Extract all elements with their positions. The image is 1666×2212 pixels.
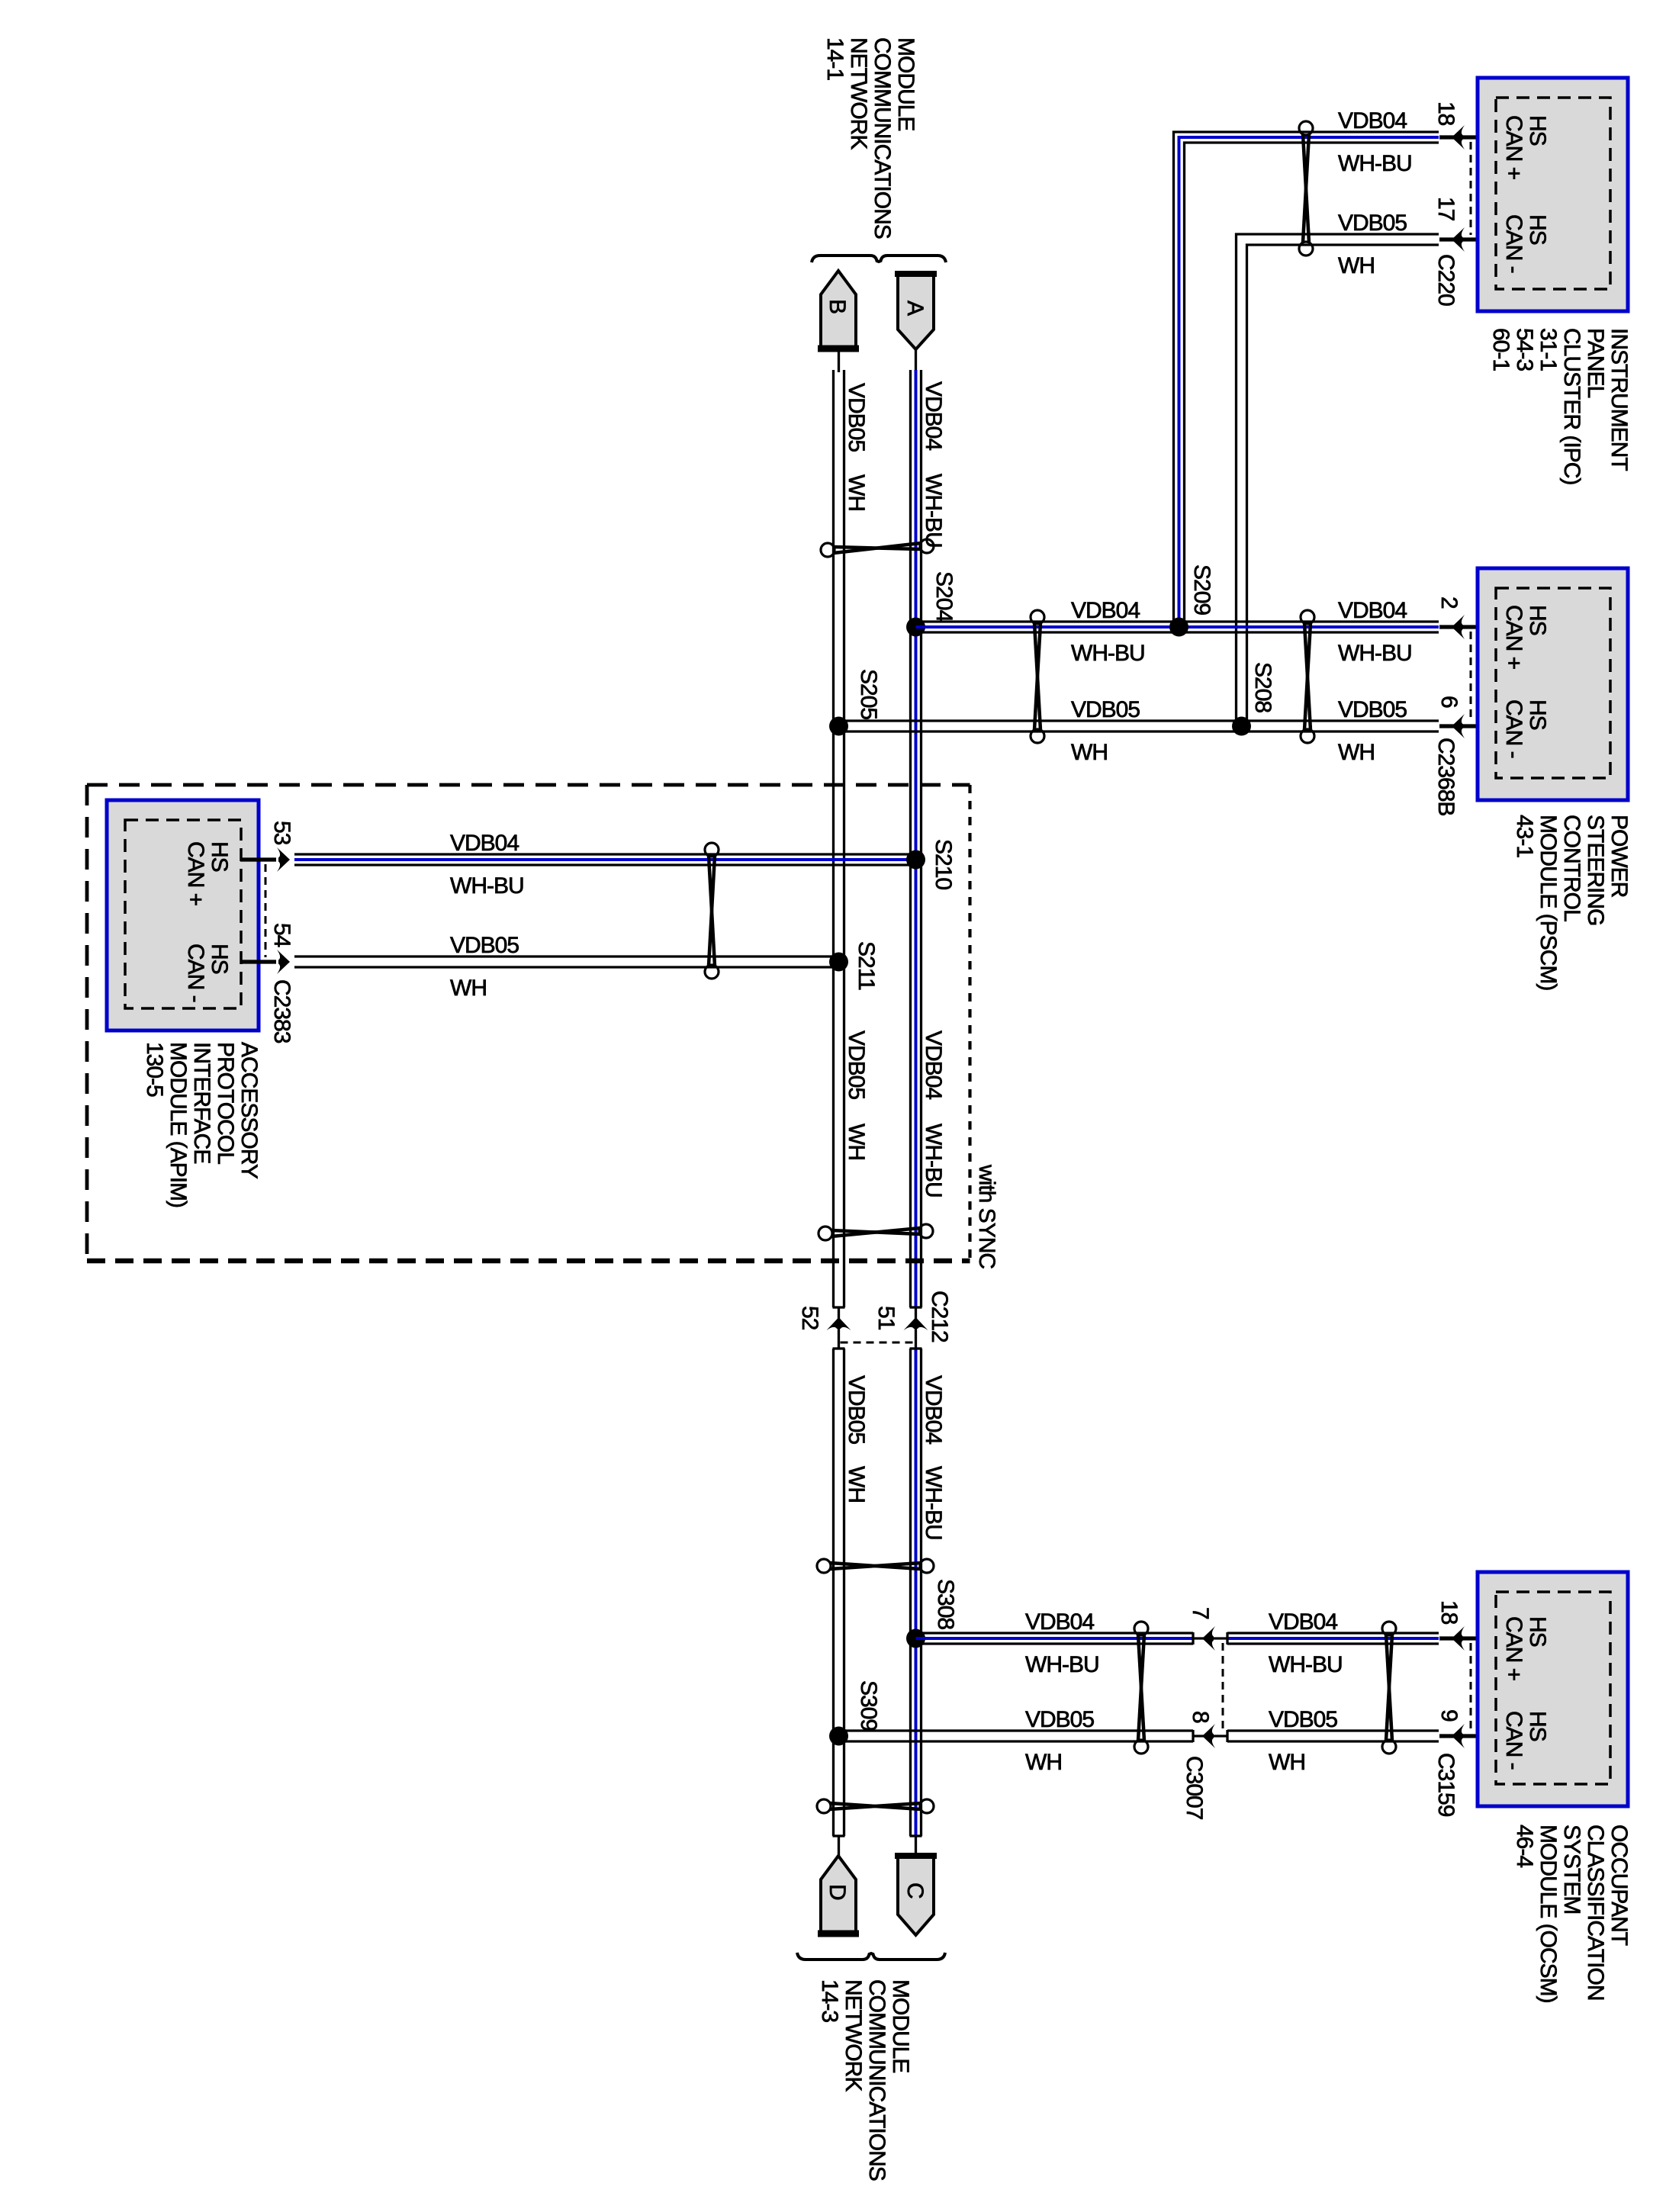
- svg-text:C2368B: C2368B: [1433, 738, 1459, 815]
- svg-text:WH: WH: [844, 1124, 869, 1160]
- bus wire VDB04 WH-BU (C212 to C): [910, 1349, 922, 1836]
- option box: with SYNC: [87, 785, 970, 1261]
- wire label VDB05 WH (IPC): [1338, 211, 1407, 278]
- module box APIM (Accessory Protocol Interface Module): [107, 800, 259, 1030]
- arrow into IPC pin 17: [1452, 227, 1465, 252]
- C212 pin 51 lead: [915, 1307, 917, 1349]
- svg-text:B: B: [825, 299, 850, 313]
- wire label VDB05 WH (PSCM): [1338, 697, 1407, 765]
- OCSM pin 18 stub: [1439, 1636, 1496, 1640]
- wire stub above D: [838, 1836, 840, 1857]
- svg-text:WH-BU: WH-BU: [921, 1124, 946, 1198]
- wire label VDB04 WH-BU (mid segment): [1071, 598, 1145, 666]
- svg-text:WH: WH: [1338, 740, 1375, 765]
- svg-text:WH: WH: [1338, 253, 1375, 278]
- label S209: [1189, 564, 1214, 615]
- module box OCSM (Occupant Classification System Module): [1478, 1572, 1628, 1806]
- svg-text:HS: HS: [207, 841, 232, 872]
- svg-text:VDB05: VDB05: [1338, 211, 1407, 236]
- svg-text:VDB05: VDB05: [450, 933, 519, 958]
- svg-text:WH-BU: WH-BU: [1338, 151, 1412, 176]
- wire VDB04 WH-BU (APIM pin 53 to S210): [294, 854, 916, 865]
- arrow into OCSM pin 9: [1452, 1724, 1465, 1748]
- arrow into C212 pin 52: [827, 1317, 851, 1330]
- twisted pair symbol (bus, below C212): [817, 1559, 934, 1573]
- module name POWER STEERING CONTROL MODULE (PSCM): [1512, 815, 1632, 990]
- svg-text:CAN +: CAN +: [1501, 115, 1526, 180]
- svg-text:WH: WH: [1071, 740, 1108, 765]
- svg-text:C220: C220: [1433, 254, 1459, 306]
- svg-text:WH-BU: WH-BU: [1338, 641, 1412, 666]
- module name OCCUPANT CLASSIFICATION SYSTEM MODULE (OCSM): [1512, 1825, 1632, 2003]
- connector label C2368B: [1433, 738, 1459, 815]
- svg-text:130-5: 130-5: [142, 1042, 167, 1097]
- svg-text:6: 6: [1436, 696, 1462, 708]
- svg-text:HS: HS: [1525, 699, 1550, 730]
- arrow into C3007 pin 7: [1202, 1626, 1215, 1651]
- svg-text:S205: S205: [856, 669, 881, 719]
- APIM pin name HS CAN -: [183, 944, 232, 1002]
- svg-text:PANEL: PANEL: [1583, 328, 1608, 397]
- svg-text:VDB05: VDB05: [1269, 1707, 1337, 1732]
- bus label VDB04 WH-BU (lower): [921, 1375, 946, 1540]
- IPC pin 18 stub: [1439, 135, 1496, 139]
- svg-text:CAN -: CAN -: [1501, 699, 1526, 758]
- svg-text:S209: S209: [1189, 564, 1214, 615]
- wire VDB04 WH-BU (IPC pin 18 branch): [1174, 132, 1439, 627]
- C3007 pin 8 lead: [1192, 1735, 1228, 1737]
- module box IPC (Instrument Panel Cluster): [1478, 78, 1628, 311]
- svg-text:VDB04: VDB04: [1269, 1609, 1337, 1635]
- OCSM pin name HS CAN +: [1501, 1616, 1550, 1681]
- wire label VDB04 WH-BU (IPC): [1338, 108, 1412, 176]
- twisted pair symbol (S308/S309 segment): [1134, 1622, 1148, 1754]
- svg-text:C2383: C2383: [269, 979, 294, 1043]
- label S211: [854, 941, 879, 990]
- pin 51 label: [873, 1306, 899, 1330]
- svg-text:VDB04: VDB04: [921, 381, 946, 450]
- svg-text:C212: C212: [927, 1291, 952, 1342]
- wire label VDB05 WH (S309 segment): [1025, 1707, 1094, 1775]
- wire VDB05 WH (S309 to C3007): [839, 1730, 1194, 1742]
- svg-text:S204: S204: [931, 571, 957, 622]
- wire VDB05 WH (APIM pin 54 to S211): [294, 956, 839, 967]
- arrow out of APIM pin 54: [277, 950, 290, 974]
- svg-text:S211: S211: [854, 941, 879, 990]
- svg-text:OCCUPANT: OCCUPANT: [1606, 1825, 1632, 1946]
- svg-text:54-3: 54-3: [1512, 328, 1537, 371]
- APIM connector dashed line C2383: [265, 864, 267, 957]
- svg-text:ACCESSORY: ACCESSORY: [236, 1042, 262, 1179]
- svg-text:STEERING: STEERING: [1583, 815, 1608, 925]
- label S208: [1250, 662, 1275, 712]
- twisted pair symbol (OCSM): [1382, 1622, 1396, 1754]
- module box PSCM (Power Steering Control Module): [1478, 568, 1628, 800]
- APIM pin name HS CAN +: [183, 841, 232, 906]
- splice S211: [829, 953, 848, 972]
- wire VDB05 WH (S205 to PSCM pin 6): [839, 721, 1439, 731]
- splice S204: [906, 618, 925, 637]
- svg-text:COMMUNICATIONS: COMMUNICATIONS: [870, 37, 895, 239]
- splice S209: [1169, 618, 1188, 637]
- svg-text:9: 9: [1436, 1709, 1462, 1722]
- pin 53 label: [269, 821, 294, 845]
- svg-text:VDB05: VDB05: [1071, 697, 1140, 722]
- net name MODULE COMMUNICATIONS NETWORK 14-3: [817, 1979, 913, 2181]
- pin 52 label: [797, 1306, 822, 1330]
- svg-text:C3007: C3007: [1182, 1756, 1207, 1820]
- OCSM pin 9 stub: [1439, 1734, 1496, 1738]
- svg-text:S309: S309: [856, 1680, 881, 1731]
- connector label C2383: [269, 979, 294, 1043]
- svg-text:MODULE (APIM): MODULE (APIM): [166, 1042, 191, 1207]
- svg-text:VDB05: VDB05: [1025, 1707, 1094, 1732]
- C212 connector dashed line: [841, 1342, 915, 1344]
- svg-text:52: 52: [797, 1306, 822, 1330]
- svg-text:WH-BU: WH-BU: [921, 474, 946, 548]
- brace bottom: [797, 1953, 945, 1960]
- pin 2 label: [1436, 596, 1462, 609]
- connector label C220: [1433, 254, 1459, 306]
- OCSM connector dashed line C3159: [1470, 1643, 1472, 1731]
- svg-text:HS: HS: [1525, 1616, 1550, 1647]
- module name INSTRUMENT PANEL CLUSTER (IPC): [1488, 328, 1632, 484]
- PSCM connector dashed line C2368B: [1470, 632, 1472, 722]
- svg-text:VDB04: VDB04: [921, 1030, 946, 1099]
- splice S309: [829, 1727, 848, 1746]
- svg-text:HS: HS: [1525, 1711, 1550, 1741]
- net name MODULE COMMUNICATIONS NETWORK 14-1: [822, 37, 918, 239]
- svg-text:MODULE (PSCM): MODULE (PSCM): [1536, 815, 1561, 990]
- pin 54 label: [269, 923, 294, 947]
- svg-text:CAN -: CAN -: [1501, 1711, 1526, 1770]
- PSCM pin 6 stub: [1439, 724, 1496, 728]
- svg-text:SYSTEM: SYSTEM: [1559, 1825, 1584, 1914]
- twisted pair symbol (bus, upper): [821, 539, 934, 557]
- label S205: [856, 669, 881, 719]
- svg-text:WH-BU: WH-BU: [1071, 641, 1145, 666]
- bus label VDB04 WH-BU (top): [921, 381, 946, 548]
- svg-text:43-1: 43-1: [1512, 815, 1537, 857]
- svg-text:VDB04: VDB04: [921, 1375, 946, 1444]
- svg-text:VDB04: VDB04: [450, 831, 519, 856]
- svg-text:18: 18: [1433, 101, 1459, 126]
- IPC pin 17 stub: [1439, 237, 1496, 241]
- wire label VDB04 WH-BU (APIM): [450, 831, 524, 899]
- svg-text:WH-BU: WH-BU: [1269, 1652, 1343, 1677]
- svg-text:INTERFACE: INTERFACE: [189, 1042, 214, 1163]
- label S308: [933, 1579, 958, 1629]
- arrow into PSCM pin 6: [1452, 714, 1465, 738]
- svg-text:46-4: 46-4: [1512, 1825, 1537, 1867]
- off-page connector D: [818, 1856, 859, 1935]
- bus label VDB05 WH (middle): [844, 1030, 869, 1160]
- off-page connector A: [895, 273, 937, 349]
- svg-text:NETWORK: NETWORK: [841, 1979, 866, 2091]
- svg-text:VDB05: VDB05: [844, 383, 869, 452]
- wire VDB04 WH-BU (S204 to PSCM pin 2): [916, 622, 1439, 632]
- twisted pair symbol (bus, in SYNC box): [819, 1224, 933, 1240]
- svg-text:WH: WH: [1025, 1750, 1062, 1775]
- pin 6 label: [1436, 696, 1462, 708]
- label S309: [856, 1680, 881, 1731]
- svg-text:CAN -: CAN -: [1501, 214, 1526, 273]
- svg-text:S208: S208: [1250, 662, 1275, 712]
- IPC pin name HS CAN -: [1501, 214, 1550, 273]
- bus wire VDB05 WH (C212 to D): [833, 1349, 845, 1836]
- svg-text:VDB04: VDB04: [1338, 598, 1407, 623]
- svg-text:CONTROL: CONTROL: [1559, 815, 1584, 921]
- APIM pin 53 stub: [240, 857, 276, 861]
- bus label VDB05 WH (top): [844, 383, 869, 511]
- svg-text:CAN +: CAN +: [1501, 605, 1526, 670]
- svg-text:18: 18: [1436, 1600, 1462, 1625]
- arrow out of APIM pin 53: [277, 847, 290, 872]
- svg-text:INSTRUMENT: INSTRUMENT: [1606, 328, 1632, 471]
- svg-text:WH: WH: [844, 1466, 869, 1503]
- svg-text:MODULE: MODULE: [893, 37, 918, 130]
- pin 8 label: [1188, 1711, 1213, 1723]
- bus label VDB05 WH (lower): [844, 1375, 869, 1503]
- svg-text:S210: S210: [931, 839, 956, 889]
- bus label VDB04 WH-BU (middle): [921, 1030, 946, 1198]
- svg-text:VDB05: VDB05: [844, 1375, 869, 1444]
- wire VDB04 WH-BU (S308 to C3007): [916, 1632, 1194, 1645]
- svg-text:7: 7: [1188, 1607, 1213, 1619]
- svg-text:WH: WH: [844, 474, 869, 511]
- svg-text:HS: HS: [1525, 214, 1550, 245]
- pin 7 label: [1188, 1607, 1213, 1619]
- svg-text:S308: S308: [933, 1579, 958, 1629]
- svg-text:CLASSIFICATION: CLASSIFICATION: [1583, 1825, 1608, 2000]
- svg-text:53: 53: [269, 821, 294, 845]
- module name ACCESSORY PROTOCOL INTERFACE MODULE (APIM): [142, 1042, 262, 1207]
- svg-text:A: A: [902, 301, 928, 316]
- label S210: [931, 839, 956, 889]
- APIM pin 54 stub: [240, 960, 276, 963]
- svg-text:2: 2: [1436, 596, 1462, 609]
- svg-text:POWER: POWER: [1606, 815, 1632, 898]
- label S204: [931, 571, 957, 622]
- off-page connector C: [895, 1855, 937, 1935]
- svg-text:PROTOCOL: PROTOCOL: [213, 1042, 238, 1164]
- twisted pair symbol (PSCM): [1301, 610, 1314, 743]
- wire stub below A: [915, 349, 917, 372]
- svg-text:HS: HS: [207, 944, 232, 974]
- arrow into C212 pin 51: [904, 1317, 928, 1330]
- svg-text:60-1: 60-1: [1488, 328, 1513, 371]
- pin 9 label (OCSM): [1436, 1709, 1462, 1722]
- svg-text:MODULE: MODULE: [888, 1979, 913, 2072]
- brace top: [812, 256, 946, 262]
- wire label VDB05 WH (OCSM): [1269, 1707, 1337, 1775]
- arrow into C3007 pin 8: [1202, 1724, 1215, 1748]
- wire VDB05 WH (C3007 to OCSM pin 9): [1227, 1730, 1439, 1742]
- svg-text:14-1: 14-1: [822, 37, 847, 80]
- PSCM pin name HS CAN -: [1501, 699, 1550, 758]
- pin 18 label: [1433, 101, 1459, 126]
- svg-text:VDB04: VDB04: [1338, 108, 1407, 133]
- svg-text:17: 17: [1433, 197, 1459, 221]
- svg-text:with SYNC: with SYNC: [974, 1164, 999, 1268]
- off-page connector B: [818, 271, 859, 350]
- twisted pair symbol (APIM): [705, 843, 719, 979]
- svg-text:WH-BU: WH-BU: [921, 1466, 946, 1540]
- svg-text:NETWORK: NETWORK: [846, 37, 871, 150]
- splice S210: [906, 850, 925, 870]
- svg-text:VDB05: VDB05: [844, 1030, 869, 1099]
- OCSM pin name HS CAN -: [1501, 1711, 1550, 1770]
- IPC pin name HS CAN +: [1501, 115, 1550, 180]
- bus wire VDB05 WH (B to C212): [833, 370, 845, 1307]
- svg-text:51: 51: [873, 1306, 899, 1330]
- twisted pair symbol (IPC): [1299, 121, 1313, 256]
- svg-text:HS: HS: [1525, 605, 1550, 635]
- PSCM pin 2 stub: [1439, 625, 1496, 629]
- arrow into IPC pin 18: [1452, 125, 1465, 150]
- wire stub above C: [915, 1836, 917, 1856]
- svg-text:CAN -: CAN -: [183, 944, 208, 1002]
- option label with SYNC: [974, 1164, 999, 1268]
- svg-text:WH-BU: WH-BU: [450, 873, 524, 899]
- bus wire VDB04 WH-BU (A to C212): [910, 370, 922, 1307]
- svg-text:8: 8: [1188, 1711, 1213, 1723]
- svg-text:CLUSTER (IPC): CLUSTER (IPC): [1559, 328, 1584, 484]
- svg-text:54: 54: [269, 923, 294, 947]
- svg-text:VDB04: VDB04: [1071, 598, 1140, 623]
- svg-text:14-3: 14-3: [817, 1979, 842, 2022]
- svg-text:WH: WH: [1269, 1750, 1305, 1775]
- twisted pair symbol (S204/S205 segment): [1031, 610, 1044, 743]
- svg-text:MODULE (OCSM): MODULE (OCSM): [1536, 1825, 1561, 2003]
- wire label VDB05 WH (APIM): [450, 933, 519, 1001]
- svg-text:C: C: [902, 1882, 928, 1899]
- wire VDB04 WH-BU (C3007 to OCSM pin 18): [1227, 1632, 1439, 1645]
- svg-text:VDB05: VDB05: [1338, 697, 1407, 722]
- svg-text:VDB04: VDB04: [1025, 1609, 1094, 1635]
- twisted pair symbol (bus, above D/C): [817, 1799, 934, 1813]
- svg-text:D: D: [825, 1884, 850, 1900]
- wire VDB05 WH (IPC pin 17 branch): [1237, 234, 1439, 726]
- connector label C3159: [1433, 1753, 1459, 1817]
- wire label VDB04 WH-BU (S308 segment): [1025, 1609, 1099, 1677]
- wire label VDB05 WH (mid segment): [1071, 697, 1140, 765]
- svg-text:CAN +: CAN +: [183, 841, 208, 906]
- wire label VDB04 WH-BU (PSCM): [1338, 598, 1412, 666]
- splice S205: [829, 717, 848, 736]
- arrow into PSCM pin 2: [1452, 615, 1465, 639]
- wire label VDB04 WH-BU (OCSM): [1269, 1609, 1343, 1677]
- arrow into OCSM pin 18: [1452, 1626, 1465, 1651]
- svg-text:WH-BU: WH-BU: [1025, 1652, 1099, 1677]
- pin 17 label: [1433, 197, 1459, 221]
- svg-text:WH: WH: [450, 976, 487, 1001]
- wire stub below B: [838, 352, 840, 372]
- splice S308: [906, 1629, 925, 1648]
- PSCM pin name HS CAN +: [1501, 605, 1550, 670]
- pin 18 label (OCSM): [1436, 1600, 1462, 1625]
- splice S208: [1232, 717, 1251, 736]
- svg-text:C3159: C3159: [1433, 1753, 1459, 1817]
- svg-text:CAN +: CAN +: [1501, 1616, 1526, 1681]
- connector label C212: [927, 1291, 952, 1342]
- C212 pin 52 lead: [838, 1307, 840, 1349]
- IPC connector dashed line C220: [1470, 142, 1472, 235]
- svg-text:COMMUNICATIONS: COMMUNICATIONS: [864, 1979, 889, 2181]
- connector label C3007: [1182, 1756, 1207, 1820]
- svg-text:HS: HS: [1525, 115, 1550, 146]
- C3007 pin 7 lead: [1192, 1637, 1228, 1639]
- svg-text:31-1: 31-1: [1536, 328, 1561, 371]
- C3007 connector dashed line: [1222, 1643, 1224, 1731]
